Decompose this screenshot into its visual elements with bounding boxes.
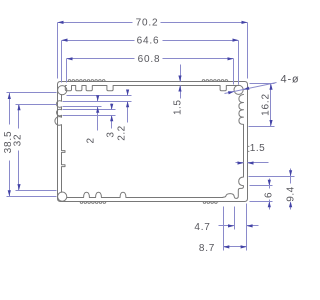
svg-text:32: 32 [13,134,24,147]
svg-text:2.2: 2.2 [116,125,127,140]
right outer wall tick marks [248,146,250,151]
svg-text:8.7: 8.7 [199,243,215,254]
dimension 6 bottom boss height [269,179,271,189]
svg-text:60.8: 60.8 [138,54,161,65]
svg-text:9.4: 9.4 [286,186,297,201]
svg-text:3: 3 [105,132,116,138]
dimension 64.6 boss spacing [62,40,135,42]
bottom edge serration right patch [203,202,218,204]
bottom edge serration left patch [80,202,107,204]
svg-text:16.2: 16.2 [261,93,272,116]
dimension 9.4 lower scallop height [290,169,292,184]
svg-text:4-ø: 4-ø [281,73,300,85]
right inner wall with fluted screw column and bottom screw channel [223,94,244,198]
svg-text:1.5: 1.5 [172,100,183,115]
dimension 32 slot region height [18,105,20,129]
screw boss top-right [234,85,243,94]
dimension 38.5 boss vertical spacing [9,93,11,125]
svg-text:70.2: 70.2 [136,18,159,29]
dimension 4.7 [219,225,235,227]
dimension 16.2 screw column height [270,84,272,127]
profile outer shell [58,82,248,202]
left inner wall with card-slot grooves and ribs [55,95,65,193]
extension lines of card-slot grooves [67,95,132,97]
top edge serration right patch [202,80,229,82]
screw boss top-left [58,86,67,95]
leader 4-diameter screw holes [225,83,277,94]
dimension 70.2 overall width [58,22,133,24]
svg-text:64.6: 64.6 [137,35,160,46]
dimension 60.8 inner width [67,58,135,60]
dimension 2.2 groove spacing [127,90,129,96]
bottom inner surface with spline bumps [67,192,223,197]
dimension 2 groove width [97,96,99,102]
dimension 8.7 [224,246,247,248]
dimension 1.5 top wall thickness [180,65,182,82]
svg-text:4.7: 4.7 [194,222,210,233]
inner top surface with screw-slot notches [65,86,239,91]
dimension 3 groove pitch [111,104,113,110]
top edge serration left patch [68,80,106,82]
screw boss bottom-left [58,192,67,201]
svg-text:1.5: 1.5 [250,143,265,154]
svg-text:6: 6 [264,192,275,198]
dimension 1.5 right wall thickness [236,162,244,164]
svg-text:2: 2 [86,137,97,143]
